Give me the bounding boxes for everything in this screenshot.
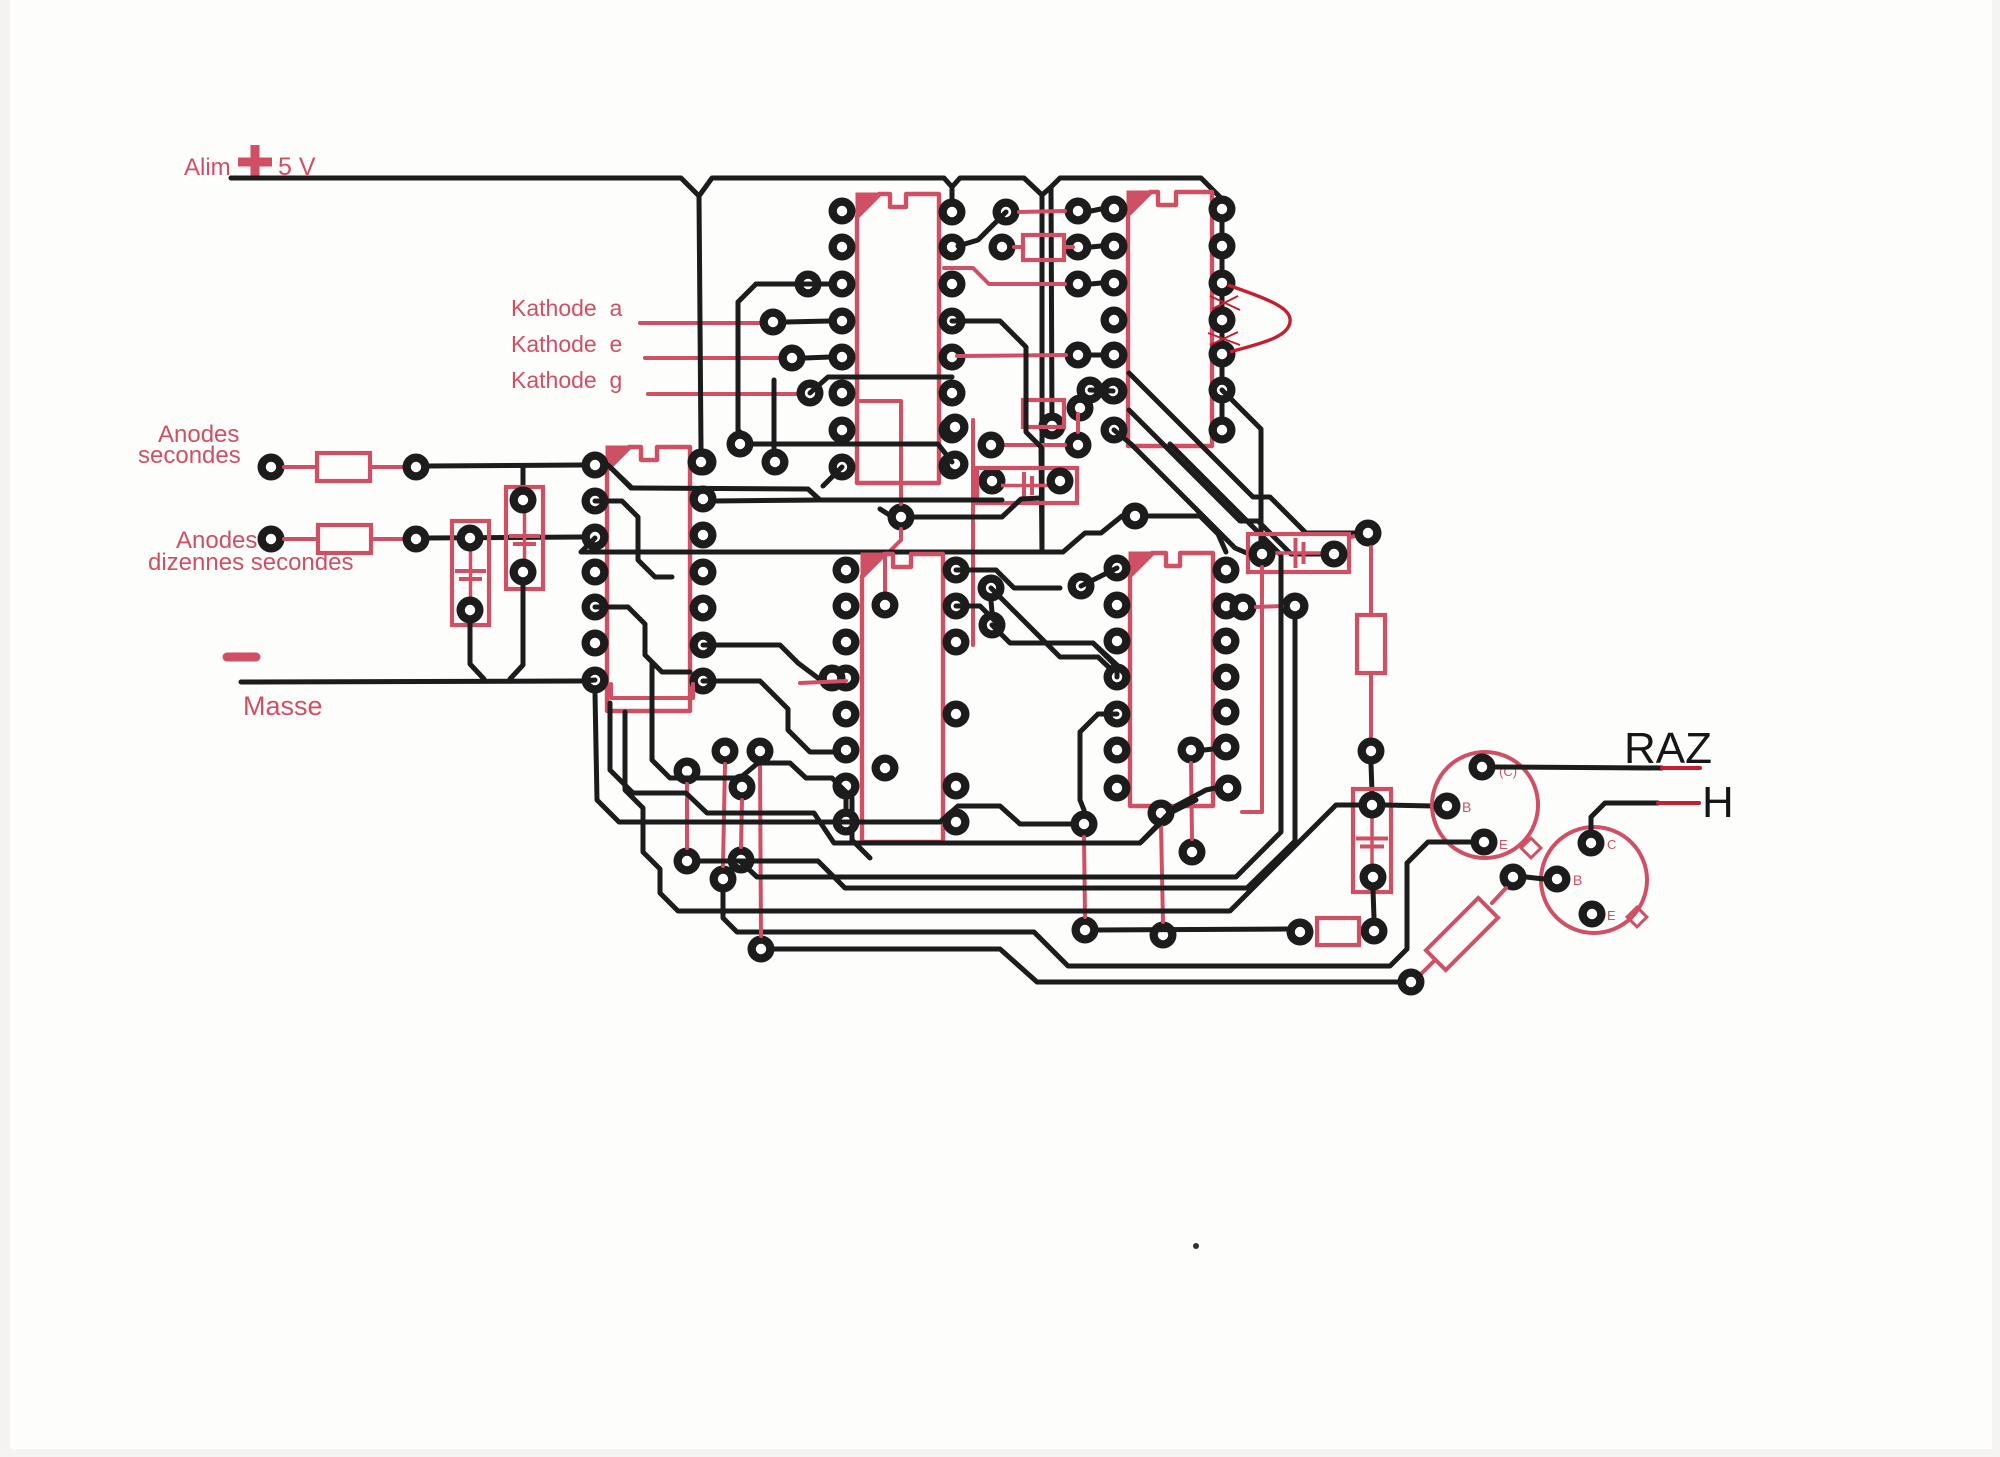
red lead R5 lower: [1420, 961, 1434, 975]
red tip RAZ: [1662, 766, 1700, 770]
wire vertical from rail x=1042: [1040, 195, 1045, 552]
pad Kathode a: [760, 309, 787, 336]
wire anodes dizennes row: [429, 537, 582, 538]
wire bus strand A: [595, 693, 1071, 824]
wire elbow x=738: [738, 284, 756, 432]
red vertical C4 pad down: [1242, 567, 1262, 812]
pad x955 y464: [942, 451, 969, 478]
wire pad901 to rail: [914, 498, 1040, 517]
resistor R4: [1317, 918, 1359, 945]
IC U5 right pads: [1213, 557, 1240, 584]
pad x1411 y982: [1398, 969, 1425, 996]
wire link 1513 to T2 base: [1526, 877, 1544, 879]
pad anodes secondes input: [258, 454, 285, 481]
wire vertical from rail x=1052: [1051, 187, 1052, 426]
wire row 444: [753, 444, 952, 462]
wire bus strand B2: [610, 703, 1215, 843]
pad inner IC5 x1191 y750: [1178, 737, 1205, 764]
svg-text:H: H: [1702, 778, 1734, 827]
wire H: [1591, 803, 1658, 830]
pad C4 right: [1321, 541, 1348, 568]
IC U2 left pads: [1101, 196, 1128, 223]
wire 1371 to C5: [1371, 764, 1372, 792]
wire diagonal bus 3: [1131, 444, 1249, 554]
IC U1 outline: [857, 194, 939, 483]
transistor T1: [1432, 752, 1538, 858]
wire masse into pad595: [583, 680, 595, 681]
capacitor C1: [452, 521, 489, 625]
pad col x1078 r1: [1065, 198, 1092, 225]
red lead R5 upper: [1492, 888, 1506, 903]
IC U4 inner pad 768: [872, 755, 899, 782]
svg-text:secondes: secondes: [138, 442, 241, 469]
pad Kathode e: [779, 345, 806, 372]
IC U1 right pads: [939, 199, 966, 226]
pad C1 top: [457, 525, 484, 552]
pad C3 right: [1047, 468, 1074, 495]
red trace pad1368 down: [1369, 547, 1373, 615]
resistor R6 between rails: [1023, 235, 1064, 260]
pad x1295 y606: [1282, 593, 1309, 620]
wire T1 base line: [1385, 805, 1433, 806]
pad x741 y860: [728, 847, 755, 874]
pad x991 y445: [978, 432, 1005, 459]
wire RAZ: [1495, 767, 1662, 768]
pad x775 y462: [762, 449, 789, 476]
wire link 1078-1114 r2: [1091, 246, 1101, 247]
pad x955 y427: [942, 414, 969, 441]
pad x1052 y426: [1039, 413, 1066, 440]
wire link 1080-1114 r4: [1091, 353, 1101, 358]
pad x1192 y852: [1179, 839, 1206, 866]
pad C5 bottom: [1360, 864, 1387, 891]
wire pad1135 to IC5: [1148, 516, 1226, 552]
red link row683: [800, 681, 846, 683]
red trace R7 to pads: [1004, 443, 1065, 447]
wire bus y487: [610, 467, 631, 488]
pad x1513 y877: [1500, 864, 1527, 891]
wire bus strand C: [700, 620, 1295, 888]
wire IC2 left pad into bundle: [1114, 430, 1131, 444]
IC U4 left pads: [833, 557, 860, 584]
pad Kathode g: [797, 380, 824, 407]
pad C4 left: [1249, 541, 1276, 568]
wire vertical rail drop to IC1 pin: [950, 187, 955, 200]
pad row 284 mid: [795, 271, 822, 298]
wire Kathode g riser: [810, 377, 952, 393]
wire fork to IC5 pad: [1093, 643, 1117, 677]
svg-text:E: E: [1607, 908, 1616, 923]
pad T1 base: [1434, 793, 1461, 820]
red link 1084 pads: [1084, 837, 1085, 917]
pad x1090 y390: [1077, 377, 1104, 404]
red link 725-723: [723, 764, 725, 866]
pad x1135 y516: [1122, 503, 1149, 530]
wire bus strand E riser: [1100, 800, 1196, 843]
pad col x1005 r1: [993, 199, 1020, 226]
resistor R3: [1357, 615, 1385, 673]
wire link 1078-1114 r1: [1091, 209, 1101, 211]
wire IC1 right pin 4 descend: [952, 321, 1042, 552]
pad T1 emitter: [1471, 829, 1498, 856]
red link 1191-1192: [1191, 763, 1192, 839]
pad x725 y751: [712, 738, 739, 765]
pad col x1078 r6: [1065, 432, 1092, 459]
wire pad901 link: [880, 509, 891, 516]
pad x1163 y935: [1150, 922, 1177, 949]
wire T1 emitter line: [723, 842, 1471, 966]
pad x761 y949: [748, 936, 775, 963]
pad T1 collector: [1469, 754, 1496, 781]
pad top of IC3 column: [727, 431, 754, 458]
pad col x1078 r2: [1065, 234, 1092, 261]
wire IC3 internal 2: [595, 607, 690, 672]
pad C1 bottom: [457, 597, 484, 624]
red link 1161-1163: [1161, 826, 1163, 922]
capacitor C2: [506, 487, 543, 589]
red trace Kathode a: [640, 321, 760, 325]
pad R1 right: [403, 454, 430, 481]
pad x1113 y391: [1100, 378, 1127, 405]
dot artifact: [1193, 1243, 1199, 1249]
pad x1161 y813: [1148, 800, 1175, 827]
plus symbol +5V: [251, 145, 260, 179]
wire branch to C2: [521, 466, 526, 488]
svg-text:Kathode a: Kathode a: [511, 295, 622, 321]
IC U4 inner pad 605: [872, 592, 899, 619]
wire x775 vertical: [772, 380, 777, 449]
pad R2 right: [403, 526, 430, 553]
red trace to IC4 inner pad: [885, 529, 901, 592]
wire Masse: [241, 681, 583, 682]
wire diagonal bus 1: [1129, 373, 1355, 533]
wire IC2 right pin column: [1220, 199, 1225, 430]
pad C2 bottom: [510, 559, 537, 586]
wire C2 bottom to Masse: [510, 584, 523, 679]
capacitor C3: [977, 468, 1077, 503]
pad col x1078 r3: [1065, 271, 1092, 298]
wire anodes secondes to IC3: [429, 465, 582, 466]
IC U5 left pads: [1104, 555, 1131, 582]
pad col x1078 r5: [1067, 395, 1094, 422]
pad col x1005 r2: [989, 234, 1016, 261]
wire diag 1081-1117: [1081, 568, 1117, 586]
wire IC3 left col entries: [608, 465, 631, 487]
svg-text:Alim: Alim: [184, 154, 231, 181]
red trace Kathode g: [648, 392, 797, 396]
red trace kathode-net to IC2 r3: [944, 268, 1065, 284]
pad extra x832 y678: [819, 665, 846, 692]
pad x1371 y751: [1358, 738, 1385, 765]
pad C2 top: [510, 487, 537, 514]
pad x992 y625: [979, 612, 1006, 639]
red link 1243-1295: [1256, 606, 1282, 607]
IC U3 left pads: [582, 452, 609, 479]
wire IC4 846-822 up: [844, 792, 849, 808]
pad x1374 y931: [1361, 918, 1388, 945]
pad x723 y879: [710, 866, 737, 893]
wire diagonal bus 2: [1129, 410, 1321, 554]
pad x701 y462: [688, 449, 715, 476]
red lead C4 to pad: [1349, 534, 1360, 538]
transistor T2: [1541, 827, 1647, 933]
wire bus strand D: [741, 557, 1281, 877]
wire link 1078-1114 r3: [1091, 283, 1101, 284]
wire R4 line to pad 1085: [1098, 929, 1288, 930]
svg-text:Kathode g: Kathode g: [511, 367, 622, 393]
pad anodes dizennes input: [258, 526, 285, 553]
pad T2 collector: [1578, 830, 1605, 857]
red link 742-741: [741, 800, 742, 847]
svg-text:E: E: [1499, 837, 1508, 852]
pad x1085 y930: [1072, 917, 1099, 944]
wire bottom line to pad 1411: [774, 949, 1398, 982]
pad x1368 y533: [1355, 520, 1382, 547]
wire vertical from rail x=701: [699, 196, 701, 448]
resistor R1 anodes secondes: [284, 465, 317, 469]
IC U3 right pads: [690, 449, 717, 476]
IC U2 outline: [1128, 192, 1212, 446]
pad x992 y481: [979, 468, 1006, 495]
wire 703 bottom right: [703, 681, 833, 752]
wire +5V rail: [231, 178, 1042, 196]
red jumper wire at IC2: [1228, 285, 1290, 352]
IC U4 right pads: [943, 557, 970, 584]
wire bus y509: [714, 500, 1002, 501]
wire IC4 right pad links: [956, 570, 1060, 588]
red trace below C3: [971, 420, 975, 645]
wire x1080 to bus: [1080, 760, 1084, 810]
svg-text:B: B: [1462, 799, 1471, 815]
pad x901 y517: [888, 504, 915, 531]
wire C1 bottom to Masse: [470, 622, 484, 679]
pad x687 y861: [674, 848, 701, 875]
pad x1228 y788: [1215, 775, 1242, 802]
pad x1081 y586: [1068, 573, 1095, 600]
wire link 1191-1228: [1204, 749, 1213, 750]
wire Kathode a to IC1: [786, 321, 830, 322]
red tip H: [1658, 801, 1699, 805]
wire link diag 1090-1113: [1090, 390, 1113, 391]
wire Kathode e to IC1: [805, 357, 830, 358]
svg-text:B: B: [1573, 872, 1582, 888]
pad x760 y751: [747, 738, 774, 765]
pad T2 emitter: [1579, 901, 1606, 928]
IC U2 right pads: [1209, 196, 1236, 223]
svg-text:Masse: Masse: [243, 691, 323, 721]
pad x687 y771: [674, 758, 701, 785]
wire bus strand B: [652, 664, 870, 858]
pad x1300 y932: [1287, 919, 1314, 946]
wire 703-832 link: [703, 645, 818, 678]
pad x1243 y607: [1230, 594, 1257, 621]
capacitor C5: [1353, 789, 1391, 892]
red trace pad1006 to pad1078: [1019, 211, 1065, 212]
pad x1084 y824: [1071, 811, 1098, 838]
pad T2 base: [1544, 866, 1571, 893]
pad col x1078 r4: [1065, 342, 1092, 369]
IC U3 outline: [607, 447, 690, 711]
capacitor C4: [1248, 534, 1349, 572]
red link 760-761: [760, 764, 761, 936]
IC U1 left pads: [829, 198, 856, 225]
red trace R3 down: [1369, 673, 1373, 737]
red trace IC1 internal: [858, 401, 901, 504]
pad C5 top: [1359, 792, 1386, 819]
wire IC5 left pads to forks: [1080, 714, 1117, 760]
wire pad808 to IC1: [756, 282, 830, 287]
wire diag from 992: [992, 625, 1117, 665]
minus symbol Masse: [227, 653, 256, 662]
pad x742 y787: [729, 774, 756, 801]
red trace to IC2 r5: [957, 355, 1066, 356]
wire IC2 pin to C4: [1222, 390, 1261, 541]
wire link 991-992: [991, 601, 992, 612]
wire diagonal bus 4: [1170, 444, 1281, 555]
red trace Kathode e: [645, 356, 779, 360]
red link 687: [685, 784, 689, 848]
wire stub pad842-467: [823, 467, 842, 486]
svg-text:Kathode e: Kathode e: [511, 331, 622, 357]
wire IC3 internal 1: [595, 501, 672, 577]
resistor R7 between rails: [1023, 400, 1064, 427]
wire diag from 991: [991, 588, 1117, 675]
resistor R5 diagonal: [1426, 898, 1498, 970]
IC U5 outline: [1130, 553, 1213, 806]
resistor R2 anodes dizennes: [284, 537, 318, 541]
IC U4 outline: [862, 554, 943, 842]
wire pad1006 diagonal: [958, 212, 1006, 246]
red trace under IC3: [611, 684, 693, 698]
wire C5 bottom to R4 pad: [1373, 890, 1374, 918]
svg-text:C: C: [1607, 837, 1616, 852]
pad x991 y588: [978, 575, 1005, 602]
wire bus y553: [581, 516, 1122, 552]
wire bus strand F to C5: [625, 712, 1360, 911]
